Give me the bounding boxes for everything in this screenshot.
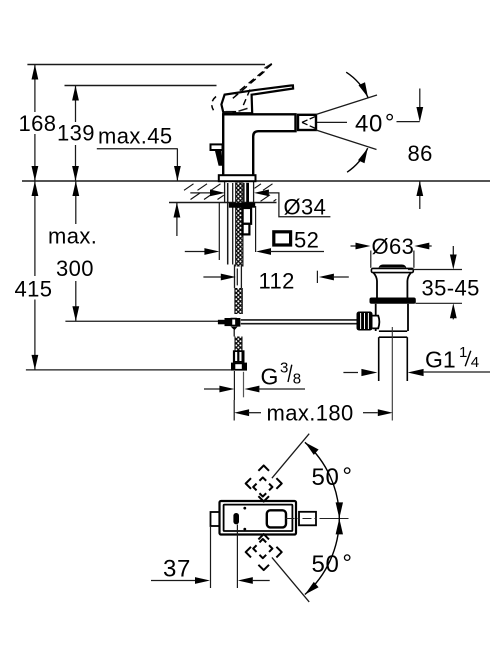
40 degree arc top with arrowhead <box>346 72 368 97</box>
50 degree arc lower with arrowheads <box>305 518 343 594</box>
svg-text:139: 139 <box>57 121 95 146</box>
dimension max.180 arrows <box>234 409 393 416</box>
dimension diameter 34 <box>190 190 330 217</box>
top reference line (lever max height) <box>27 64 271 69</box>
dimension 139 vertical <box>72 86 79 182</box>
drain locknut (black) <box>370 298 416 304</box>
svg-text:8: 8 <box>293 371 301 388</box>
shank right side lines <box>244 183 249 203</box>
flexible hose upper thin section <box>235 265 242 289</box>
max.180 extension lines <box>233 400 235 421</box>
drain valve body <box>376 304 408 331</box>
svg-text:3: 3 <box>280 360 288 377</box>
square symbol 52 <box>274 232 291 245</box>
knob stem into body <box>373 316 380 329</box>
drain flange (diameter 63) <box>371 268 413 272</box>
svg-text:Ø34: Ø34 <box>284 195 327 220</box>
knurled adjustment knob <box>357 312 373 331</box>
50 degree arc upper with arrowheads <box>305 442 343 518</box>
dimension max.300 vertical <box>72 181 79 321</box>
dimension diameter 63 arrows <box>351 243 432 250</box>
drain tailpipe walls G1 1/4 <box>379 337 408 381</box>
pop-up linkage rod horizontal <box>241 320 357 324</box>
top view: faucet body outer <box>220 501 297 535</box>
top view: spout centerline dash-dot <box>286 518 349 520</box>
dimension 168 vertical <box>32 65 39 182</box>
dimension max.45 leader and arrows <box>97 149 181 236</box>
dimension 86 vertical <box>416 89 423 210</box>
lever raised position (dashed) <box>212 64 272 112</box>
drain body taper below flange <box>374 273 411 298</box>
svg-text:50°: 50° <box>312 463 353 491</box>
svg-text:37: 37 <box>163 556 191 583</box>
top view: lever slot <box>233 513 239 524</box>
shank tube walls <box>228 183 233 265</box>
faucet base plate <box>219 175 256 181</box>
svg-text:max.45: max.45 <box>98 124 173 149</box>
threaded shank rod (knurled) <box>236 183 243 267</box>
spout centerline segments <box>317 121 420 124</box>
spray angle rays <box>316 95 377 150</box>
handle position diamond upper outer <box>246 465 282 501</box>
top view: screw dots <box>243 507 246 531</box>
dimension G1 1/4 arrows <box>343 369 490 376</box>
G3/8 connection nut <box>231 363 247 371</box>
mounting hole edges in deck <box>225 182 254 203</box>
second reference line (handle top) <box>65 85 217 87</box>
top view: faucet body inner <box>224 505 293 531</box>
max.300 extension line (hose connection level) <box>65 320 218 322</box>
diameter 63 extension lines <box>371 251 414 268</box>
svg-text:max.: max. <box>48 224 97 249</box>
svg-text:86: 86 <box>408 141 433 166</box>
50 degree diagonal lower <box>272 557 309 602</box>
35-45 extension lines <box>408 270 462 304</box>
40 degree arc bottom with arrowhead <box>347 148 368 172</box>
mounting stud block <box>243 208 252 234</box>
50 degree diagonal upper <box>272 434 309 479</box>
svg-text:52: 52 <box>294 228 319 253</box>
dimension 415 vertical <box>32 181 39 370</box>
dimension 112 arrows <box>203 274 348 281</box>
pop-up rod tee fitting <box>218 318 241 330</box>
top view: pop-up knob tab <box>211 512 221 526</box>
handle position diamond lower inner <box>253 539 272 558</box>
415 bottom extension line (G3/8 connection level) <box>26 369 231 371</box>
svg-text:Ø63: Ø63 <box>372 234 415 259</box>
svg-text:40°: 40° <box>355 110 395 138</box>
drain centerline <box>391 327 393 421</box>
dimension G3/8 arrows <box>204 386 305 393</box>
deck hatching right <box>255 184 277 202</box>
svg-text:1: 1 <box>459 344 467 361</box>
svg-text:G: G <box>261 364 279 390</box>
handle position diamond lower outer <box>246 534 282 570</box>
deck hatching left <box>184 184 224 200</box>
faucet body and spout outline <box>223 114 295 175</box>
flexible hose braided section 1 <box>235 288 242 314</box>
112 extension lines <box>237 269 317 286</box>
37 extension lines <box>211 525 238 589</box>
deck top line <box>22 180 490 182</box>
svg-text:35-45: 35-45 <box>422 276 480 301</box>
top view: spout square <box>267 510 286 527</box>
G3/8 extension lines <box>234 371 243 400</box>
pop-up rod knob (side view) <box>211 144 223 165</box>
svg-text:G1: G1 <box>425 347 456 373</box>
aerator / mousseur box <box>298 115 316 130</box>
drain bottom ring <box>379 331 407 337</box>
hose line below tee <box>233 330 235 337</box>
hose crimp fitting <box>233 350 245 363</box>
dimension 35-45 vertical <box>450 246 457 319</box>
svg-text:4: 4 <box>471 354 479 371</box>
svg-text:300: 300 <box>56 256 94 281</box>
svg-text:112: 112 <box>259 269 295 294</box>
drain plug dome cap <box>379 265 407 269</box>
flexible hose braided section 2 <box>235 337 242 351</box>
dimension 37 arrows <box>151 577 270 584</box>
top view: aerator stub <box>299 512 316 526</box>
dimension square 52 arrows <box>185 248 324 255</box>
deck bottom line <box>169 202 277 204</box>
svg-text:168: 168 <box>19 111 57 136</box>
svg-text:max.180: max.180 <box>267 401 354 426</box>
svg-text:415: 415 <box>15 277 53 302</box>
handle position diamond upper inner <box>253 477 272 496</box>
lever handle <box>221 85 293 114</box>
svg-text:50°: 50° <box>312 550 353 578</box>
fastening washer under deck <box>229 203 255 208</box>
square 52 extension lines <box>219 203 255 261</box>
